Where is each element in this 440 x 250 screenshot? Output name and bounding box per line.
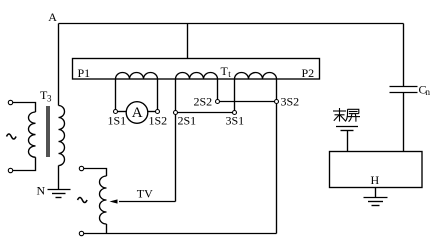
svg-text:3S2: 3S2 <box>281 95 300 109</box>
TV wiper arrow <box>110 199 118 203</box>
wire feed from top bus to CT box top <box>187 24 189 59</box>
wire T3 secondary to ground <box>58 166 60 190</box>
svg-text:TV: TV <box>137 187 153 201</box>
CT box (Tt primary bar) <box>73 59 320 80</box>
wire top bus from A corner to right drop <box>59 23 404 25</box>
label T3 <box>40 88 52 104</box>
svg-text:1S2: 1S2 <box>149 114 168 128</box>
terminal TV top <box>79 166 83 170</box>
wire 2S2 tap <box>217 79 219 100</box>
wire ammeter to 1S2 <box>148 111 156 113</box>
svg-text:2S2: 2S2 <box>194 95 213 109</box>
label ~ T3 source <box>7 134 17 139</box>
wire 3S2 tap <box>276 79 278 100</box>
wire TV winding bottom to bottom bus <box>106 224 108 234</box>
terminal 1S2 <box>156 110 160 114</box>
svg-text:n: n <box>426 87 431 97</box>
wire 2S1 down to TV wiper <box>175 115 177 202</box>
terminal TV bottom <box>79 231 83 235</box>
svg-text:T: T <box>221 64 229 78</box>
ground N <box>48 190 71 198</box>
wire capacitor to H box <box>403 93 405 152</box>
terminal 1S1 <box>114 110 118 114</box>
svg-text:H: H <box>371 173 380 187</box>
T3 primary winding <box>29 112 36 157</box>
wire TV wiper to 2S1 drop <box>119 201 176 203</box>
T3 secondary winding <box>59 106 65 166</box>
wire 2S2 to 3S2 <box>220 101 275 103</box>
svg-text:A: A <box>48 10 57 24</box>
svg-text:t: t <box>228 69 231 79</box>
wire 1S1 to ammeter <box>118 111 127 113</box>
wire A vertical down to T3 secondary <box>58 24 60 106</box>
label Tt <box>221 64 232 79</box>
svg-text:3: 3 <box>47 94 52 104</box>
wire 3S1 tap <box>234 79 236 111</box>
winding 2S (CT secondary 2) <box>176 73 218 80</box>
screen terminal (mo-ping) symbol <box>336 127 358 152</box>
wire 2S1 to 3S1 <box>178 112 233 114</box>
terminal 2S2 <box>216 100 220 104</box>
wire 2S1 tap <box>175 79 177 111</box>
wire 1S2 tap <box>157 79 159 110</box>
svg-text:N: N <box>37 184 46 198</box>
wire TV top <box>84 169 107 177</box>
ammeter A <box>126 102 148 124</box>
capacitor Cn <box>390 87 418 93</box>
T3 core <box>47 106 49 157</box>
terminal T3 primary bottom <box>8 168 12 172</box>
svg-text:P1: P1 <box>78 66 91 80</box>
TV winding <box>100 176 107 224</box>
svg-text:P2: P2 <box>302 66 315 80</box>
winding 3S (CT secondary 3) <box>235 73 277 80</box>
wire T3 primary top <box>13 103 36 113</box>
svg-text:3S1: 3S1 <box>226 114 245 128</box>
terminal T3 primary top <box>8 100 12 104</box>
wire right drop from top bus to capacitor <box>403 24 405 87</box>
svg-text:2S1: 2S1 <box>178 114 197 128</box>
terminal 3S2 <box>275 100 279 104</box>
winding 1S (CT secondary 1) <box>116 73 158 80</box>
H box (test object) <box>330 152 423 188</box>
svg-text:1S1: 1S1 <box>108 114 127 128</box>
svg-text:A: A <box>132 105 143 121</box>
wire T3 primary bottom <box>13 157 36 170</box>
ground below H <box>364 188 388 206</box>
wire 1S1 tap <box>115 79 117 110</box>
label 末屏 <box>333 108 360 122</box>
wire TV bottom bus to 3S2 drop <box>84 233 277 235</box>
wire 3S2 down to TV bottom <box>276 104 278 234</box>
terminal 3S1 <box>233 111 237 115</box>
label ~ TV source <box>78 198 88 203</box>
terminal 2S1 <box>174 111 178 115</box>
label Cn <box>419 83 431 98</box>
